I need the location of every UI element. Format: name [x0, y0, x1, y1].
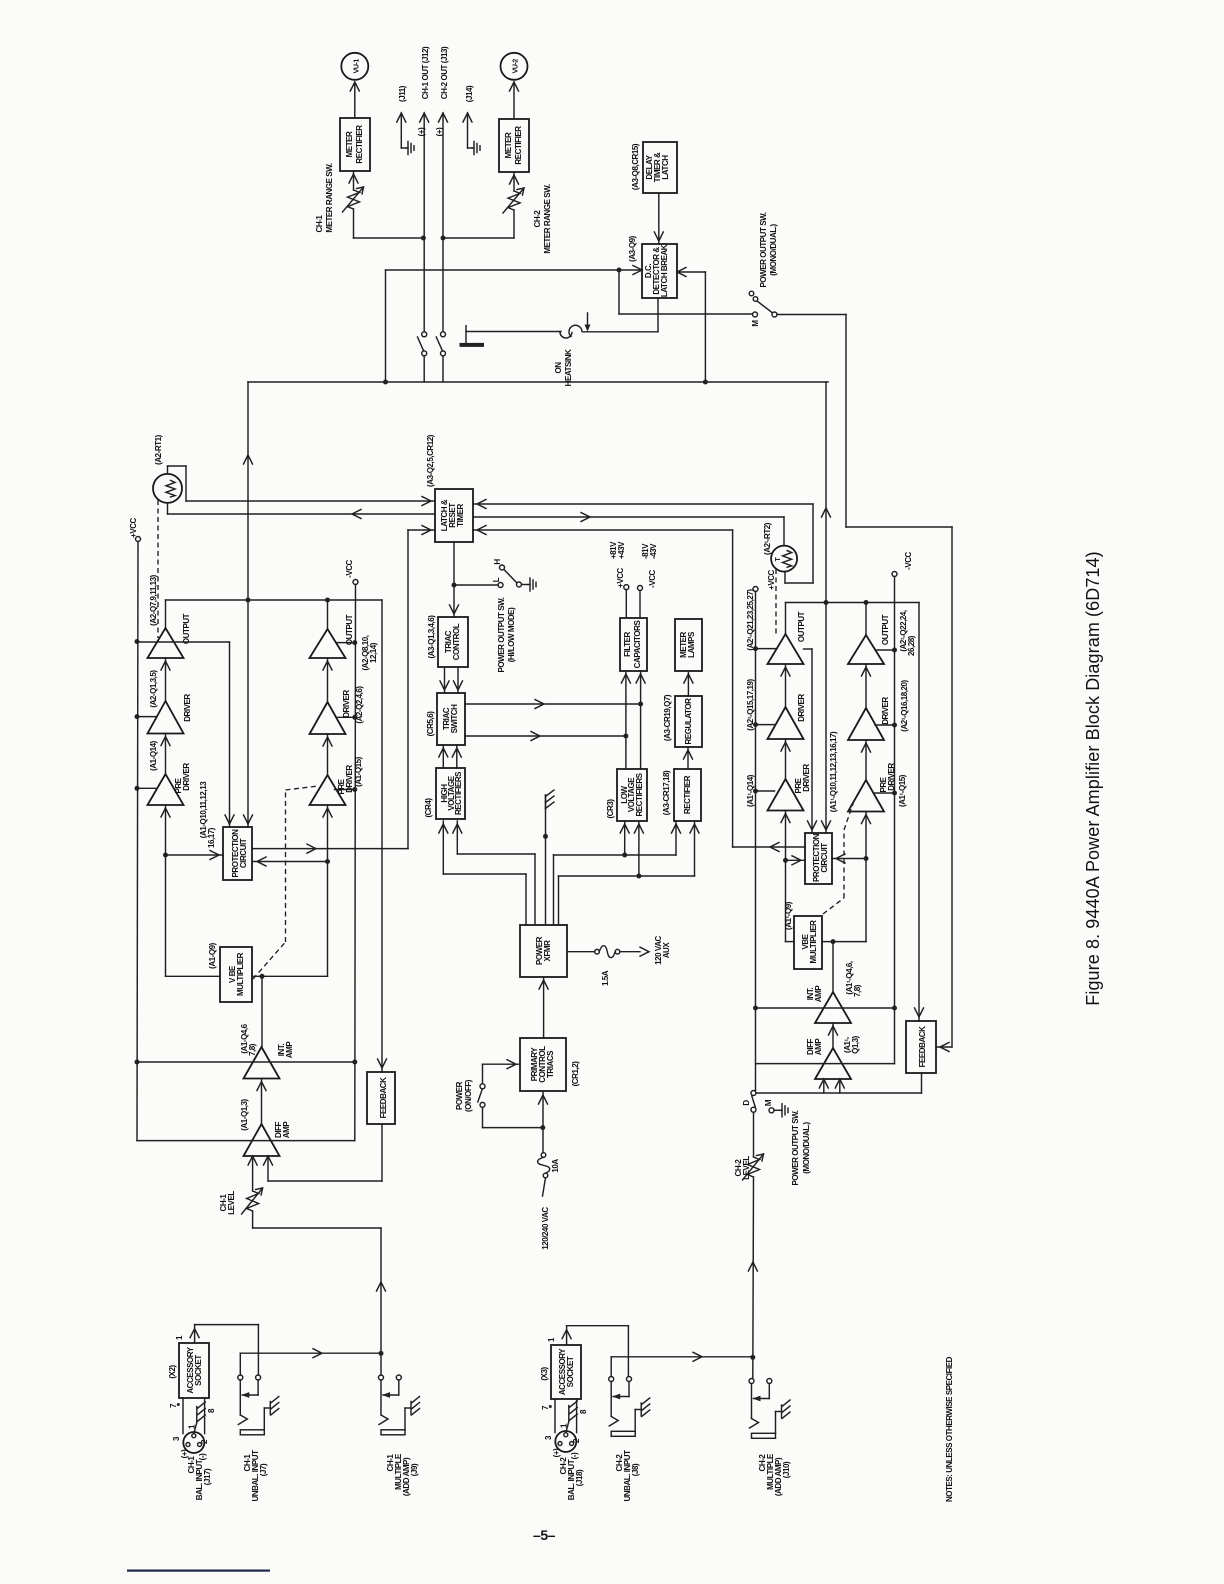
svg-text:FEEDBACK: FEEDBACK	[379, 1077, 388, 1119]
svg-text:(A1-Q9): (A1-Q9)	[208, 942, 217, 969]
svg-text:DRIVER: DRIVER	[345, 765, 354, 793]
svg-text:(CR5,6): (CR5,6)	[426, 711, 435, 737]
svg-text:RECTIFIER: RECTIFIER	[683, 775, 692, 814]
svg-text:(X2): (X2)	[168, 1365, 177, 1379]
svg-text:120/240 VAC: 120/240 VAC	[541, 1207, 550, 1250]
svg-text:(+): (+)	[552, 1448, 561, 1457]
svg-text:–5–: –5–	[533, 1527, 556, 1543]
svg-text:M: M	[764, 1099, 773, 1106]
svg-text:DRIVER: DRIVER	[183, 694, 192, 722]
svg-text:POWER OUTPUT SW.: POWER OUTPUT SW.	[759, 212, 768, 287]
svg-text:AMP: AMP	[814, 1038, 823, 1056]
svg-text:(MONO/DUAL.): (MONO/DUAL.)	[802, 1121, 811, 1173]
svg-text:(A1¹-Q14): (A1¹-Q14)	[746, 774, 755, 807]
svg-text:+VCC: +VCC	[616, 567, 625, 587]
svg-text:1.5A: 1.5A	[601, 970, 610, 986]
svg-text:POWER: POWER	[455, 1081, 464, 1110]
svg-text:12,14): 12,14)	[369, 642, 378, 663]
svg-text:-43V: -43V	[649, 543, 658, 559]
svg-text:(J18): (J18)	[575, 1469, 584, 1486]
svg-text:DRIVER: DRIVER	[802, 764, 811, 792]
svg-text:DRIVER: DRIVER	[342, 690, 351, 718]
svg-text:(X3): (X3)	[540, 1367, 549, 1381]
svg-text:D: D	[742, 1100, 751, 1106]
svg-text:Figure 8. 9440A Power Amplifie: Figure 8. 9440A Power Amplifier Block Di…	[1083, 551, 1103, 1006]
svg-text:(A2¹-RT2): (A2¹-RT2)	[763, 522, 772, 555]
svg-text:(A3-CR19,Q7): (A3-CR19,Q7)	[663, 694, 672, 741]
svg-text:(ON/OFF): (ON/OFF)	[464, 1079, 473, 1112]
svg-text:NOTES: UNLESS OTHERWISE SPECIF: NOTES: UNLESS OTHERWISE SPECIFIED	[945, 1356, 954, 1502]
svg-text:CONTROL: CONTROL	[452, 623, 461, 660]
svg-text:RECTIFIER: RECTIFIER	[514, 126, 523, 165]
svg-text:7,8): 7,8)	[248, 1043, 257, 1056]
svg-text:(A1¹-Q9): (A1¹-Q9)	[784, 901, 793, 930]
svg-text:CH-1 OUT (J12): CH-1 OUT (J12)	[421, 46, 430, 99]
svg-text:CIRCUIT: CIRCUIT	[820, 843, 829, 873]
svg-text:+43V: +43V	[617, 541, 626, 559]
svg-text:(A1¹-Q10,11,12,13,16,17): (A1¹-Q10,11,12,13,16,17)	[829, 731, 838, 812]
svg-text:(A3-Q1,3,4,6): (A3-Q1,3,4,6)	[427, 615, 436, 659]
svg-text:(A1-Q1,3): (A1-Q1,3)	[240, 1098, 249, 1130]
svg-text:LATCH: LATCH	[661, 155, 670, 180]
svg-text:10A: 10A	[551, 1159, 560, 1173]
svg-text:-VCC: -VCC	[345, 559, 354, 577]
svg-text:SWITCH: SWITCH	[450, 704, 459, 734]
svg-text:(-): (-)	[570, 1452, 579, 1459]
svg-text:LEVEL: LEVEL	[742, 1156, 751, 1180]
svg-text:AUX: AUX	[662, 942, 671, 959]
svg-text:TIMER: TIMER	[456, 504, 465, 527]
svg-text:METER RANGE SW.: METER RANGE SW.	[325, 163, 334, 232]
svg-text:REGULATOR: REGULATOR	[684, 698, 693, 745]
svg-text:Q1,3): Q1,3)	[851, 1035, 860, 1054]
svg-text:(J11): (J11)	[398, 85, 407, 102]
svg-text:RECTIFIERS: RECTIFIERS	[454, 771, 463, 815]
svg-text:POWER OUTPUT SW.: POWER OUTPUT SW.	[791, 1110, 800, 1185]
svg-text:AMP: AMP	[282, 1121, 291, 1139]
svg-text:-VCC: -VCC	[648, 569, 657, 587]
svg-text:LEVEL: LEVEL	[227, 1191, 236, 1215]
svg-text:(A3-CR17,18): (A3-CR17,18)	[662, 770, 671, 815]
svg-text:H: H	[493, 559, 502, 565]
svg-text:RECTIFIER: RECTIFIER	[355, 125, 364, 164]
svg-text:(J7): (J7)	[259, 1463, 268, 1476]
svg-text:(A3-Q8,CR15): (A3-Q8,CR15)	[631, 143, 640, 190]
svg-text:METER: METER	[504, 132, 513, 158]
svg-text:(J14): (J14)	[465, 85, 474, 102]
svg-text:CAPACITORS: CAPACITORS	[633, 620, 642, 669]
svg-text:LAMPS: LAMPS	[687, 631, 696, 658]
svg-text:DRIVER: DRIVER	[881, 697, 890, 725]
svg-text:(J10): (J10)	[782, 1461, 791, 1478]
svg-text:-VCC: -VCC	[904, 551, 913, 569]
svg-text:METER RANGE SW.: METER RANGE SW.	[543, 184, 552, 253]
svg-text:(J17): (J17)	[203, 1468, 212, 1485]
svg-text:(A3-Q2,5,CR12): (A3-Q2,5,CR12)	[426, 434, 435, 487]
svg-text:(A2-Q7,9,11,13): (A2-Q7,9,11,13)	[149, 574, 158, 625]
svg-text:(+): (+)	[435, 127, 444, 136]
svg-text:DRIVER: DRIVER	[887, 763, 896, 791]
svg-text:POWER OUTPUT SW.: POWER OUTPUT SW.	[497, 597, 506, 672]
svg-text:+VCC: +VCC	[129, 517, 138, 537]
svg-text:DRIVER: DRIVER	[797, 694, 806, 722]
svg-text:(MONO/DUAL.): (MONO/DUAL.)	[769, 223, 778, 275]
svg-text:(A2¹-Q15,17,19): (A2¹-Q15,17,19)	[746, 678, 755, 730]
svg-text:FILTER: FILTER	[623, 631, 632, 656]
svg-text:FEEDBACK: FEEDBACK	[918, 1026, 927, 1068]
svg-text:SOCKET: SOCKET	[566, 1356, 575, 1387]
svg-text:XFMR: XFMR	[543, 940, 552, 962]
svg-text:(CR3): (CR3)	[606, 799, 615, 819]
svg-text:(A1¹-Q15): (A1¹-Q15)	[898, 774, 907, 807]
svg-text:OUTPUT: OUTPUT	[182, 613, 191, 644]
svg-text:AMP: AMP	[814, 985, 823, 1003]
svg-text:(J8): (J8)	[631, 1463, 640, 1476]
svg-text:OUTPUT: OUTPUT	[881, 614, 890, 645]
svg-text:VU-2: VU-2	[513, 59, 520, 74]
svg-text:DRIVER: DRIVER	[182, 763, 191, 791]
svg-text:SOCKET: SOCKET	[194, 1355, 203, 1386]
svg-text:7,8): 7,8)	[853, 984, 862, 997]
svg-text:(CR4): (CR4)	[424, 798, 433, 818]
svg-text:(A3-Q9): (A3-Q9)	[628, 235, 637, 262]
svg-text:CH-1: CH-1	[315, 215, 324, 233]
svg-text:+VCC: +VCC	[767, 569, 776, 589]
svg-text:(A2¹-Q16,18,20): (A2¹-Q16,18,20)	[900, 679, 909, 731]
svg-text:(A1-Q14): (A1-Q14)	[149, 740, 158, 771]
svg-text:RECTIFIERS: RECTIFIERS	[635, 772, 644, 816]
svg-text:26,28): 26,28)	[907, 635, 916, 656]
svg-text:VU-1: VU-1	[354, 59, 361, 74]
svg-text:(A2-Q2,4,6): (A2-Q2,4,6)	[355, 686, 364, 724]
svg-text:CH-2: CH-2	[533, 210, 542, 228]
svg-text:(HI/LOW MODE): (HI/LOW MODE)	[507, 607, 516, 662]
svg-text:CIRCUIT: CIRCUIT	[239, 838, 248, 868]
svg-text:MULTIPLIER: MULTIPLIER	[809, 920, 818, 964]
svg-text:HEATSINK: HEATSINK	[564, 349, 573, 386]
svg-text:TRIACS: TRIACS	[546, 1050, 555, 1078]
svg-text:CH-2 OUT (J13): CH-2 OUT (J13)	[440, 46, 449, 99]
svg-text:(CR1,2): (CR1,2)	[571, 1061, 580, 1087]
svg-text:METER: METER	[345, 131, 354, 157]
svg-text:(J9): (J9)	[410, 1463, 419, 1476]
svg-text:ON: ON	[554, 362, 563, 374]
svg-text:(A2-RT1): (A2-RT1)	[154, 434, 163, 465]
svg-text:(A1-Q15): (A1-Q15)	[354, 756, 363, 787]
svg-text:(-): (-)	[198, 1453, 207, 1460]
svg-text:AMP: AMP	[285, 1041, 294, 1059]
svg-text:(+): (+)	[417, 127, 426, 136]
svg-text:LATCH BREAK: LATCH BREAK	[660, 244, 669, 297]
svg-text:L: L	[492, 577, 501, 582]
svg-text:OUTPUT: OUTPUT	[797, 611, 806, 642]
svg-text:M: M	[751, 320, 760, 327]
svg-text:16,17): 16,17)	[207, 827, 216, 848]
svg-text:OUTPUT: OUTPUT	[345, 614, 354, 645]
svg-text:(A2-Q1,3,5): (A2-Q1,3,5)	[149, 670, 158, 708]
svg-text:(A2¹-Q21,23,25,27): (A2¹-Q21,23,25,27)	[746, 589, 755, 651]
svg-text:MULTIPLIER: MULTIPLIER	[236, 952, 245, 996]
